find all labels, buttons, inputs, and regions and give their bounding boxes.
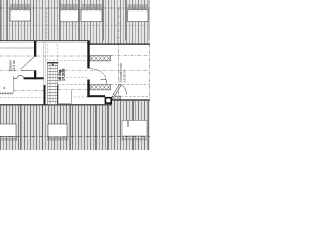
room label Flur rotated <box>58 69 66 81</box>
room label right rotated <box>119 62 127 83</box>
secondary dashed line top band <box>0 25 150 27</box>
wall C horizontal <box>24 77 44 79</box>
chimney <box>105 98 111 103</box>
eave line top right <box>87 43 150 45</box>
closet partition line x=13.8 <box>13 79 15 93</box>
eave step connector <box>110 100 112 106</box>
dash-dot line y=90.6 to stair wall <box>14 90 44 92</box>
stairwell void <box>58 90 71 104</box>
roof hatch bottom band right <box>111 101 150 150</box>
masonry wall W1 crosshatch <box>90 56 111 61</box>
section line x=118.5 <box>118 8 120 137</box>
staircase U1 <box>47 63 58 105</box>
room label left rotated <box>8 59 15 71</box>
eave line top left <box>0 40 90 42</box>
section line right edge <box>148 44 150 100</box>
skylight head shadow bands top <box>10 4 148 10</box>
dashed line y=77.3 corridor <box>58 76 87 78</box>
wall A upper segment <box>34 41 36 57</box>
dashed line y=96.6 right room <box>121 96 150 98</box>
skylight B <box>60 9 79 21</box>
door D4 leaf right room <box>113 84 126 95</box>
eave line bottom left <box>0 104 111 106</box>
roof hatch top right extension <box>90 41 151 45</box>
svg-text:12,5 m²: 12,5 m² <box>12 59 16 71</box>
skylight C <box>81 9 102 21</box>
skylight F <box>48 124 67 137</box>
main wall right lower <box>87 80 89 98</box>
rafter lines bottom band <box>21 101 149 150</box>
tick cross at 4.2,88 <box>3 87 5 89</box>
partition wall B upper (light double line) <box>43 41 45 85</box>
masonry wall W2 crosshatch <box>90 85 111 90</box>
balustrade ticks left <box>0 92 13 94</box>
section line x=46.5 top <box>46 8 48 41</box>
skylight A <box>10 9 31 21</box>
ridge dash-dot line top <box>0 7 150 9</box>
wall to chimney horizontal <box>87 95 105 97</box>
rafter lines top band <box>1 0 149 41</box>
skylight D <box>128 10 148 22</box>
roof hatch bottom band left <box>0 105 111 150</box>
door D3 leaf <box>101 79 107 81</box>
wall B lower dark <box>44 85 46 105</box>
door D3 swing arc <box>90 69 106 80</box>
door D1 swing arc <box>21 57 34 69</box>
dashed line y=60.8 hall <box>45 60 87 62</box>
stair stringer lines <box>49 63 51 105</box>
wall A lower segment <box>34 70 36 79</box>
stair top entry edge <box>47 62 58 64</box>
svg-text:14,28 m²: 14,28 m² <box>123 69 127 83</box>
roof hatch top band <box>0 0 150 41</box>
stair walking line <box>52 65 54 103</box>
dashed line y=97.7 left room <box>0 97 44 99</box>
svg-text:17,2/28: 17,2/28 <box>61 69 65 81</box>
wall / eave line bottom right <box>111 99 150 101</box>
masonry wall W3 crosshatch <box>112 96 120 99</box>
dashed height line y=56 <box>0 55 34 57</box>
dashed line y=97 corridor <box>58 96 87 98</box>
skylight E <box>0 124 16 137</box>
door D1 leaf <box>21 69 34 71</box>
dashed height line y=70 <box>0 69 34 71</box>
skylight sill shadow bands bottom <box>0 138 147 141</box>
knee wall line left room <box>0 47 34 49</box>
dashed line y=84.3 <box>58 83 87 85</box>
main wall right upper <box>87 41 89 69</box>
dashed stairwell opening line y=89.7 <box>58 89 87 91</box>
skylight G roof hatch opening <box>122 121 147 137</box>
door D2 opening arc <box>14 77 17 79</box>
stair headroom dashed outline <box>47 44 49 62</box>
stair right wall edge <box>57 85 59 105</box>
eave inner line top left <box>0 42 88 44</box>
ridge dash-dot line bottom <box>0 136 150 138</box>
